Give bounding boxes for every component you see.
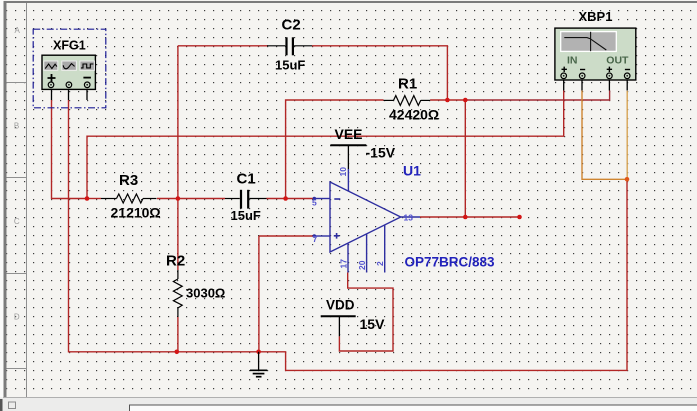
op-amp U1 symbol	[313, 169, 421, 273]
resistor R2	[173, 270, 182, 317]
junction node D on R1 row	[463, 98, 468, 103]
junction ground symbol tap	[256, 350, 261, 355]
svg-text:VEE: VEE	[335, 126, 363, 142]
svg-text:XBP1: XBP1	[579, 9, 613, 24]
wire Bode plotter IN- to ground riser (orange)	[582, 91, 627, 180]
wire C1 right lead to op-amp inverting input	[267, 198, 315, 200]
svg-text:XFG1: XFG1	[53, 39, 86, 53]
function generator XFG1	[42, 55, 95, 100]
svg-text:20: 20	[357, 260, 367, 270]
junction C2 right riser on R1 row	[445, 98, 450, 103]
svg-text:15uF: 15uF	[275, 58, 305, 73]
svg-text:U1: U1	[403, 163, 421, 179]
svg-text:3030Ω: 3030Ω	[186, 286, 225, 301]
svg-text:OP77BRC/883: OP77BRC/883	[405, 255, 496, 270]
svg-text:VDD: VDD	[326, 298, 355, 313]
svg-text:21210Ω: 21210Ω	[111, 205, 161, 221]
svg-text:C2: C2	[282, 17, 301, 34]
wire node C riser up to R1 left lead	[286, 100, 384, 199]
wire XFG1 plus terminal down to R3 row	[52, 100, 88, 199]
resistor R3	[101, 194, 157, 203]
svg-text:2: 2	[375, 261, 385, 266]
selection box around XFG1	[33, 29, 106, 108]
svg-text:OUT: OUT	[606, 54, 629, 66]
wire node A to R3 left lead	[87, 198, 101, 200]
wire ground bus from XFG1 common terminal along bottom to right riser	[69, 100, 628, 370]
svg-text:D: D	[14, 313, 20, 322]
junction R2 bottom on ground bus	[175, 350, 180, 355]
wire node D riser down to output row	[464, 100, 466, 217]
capacitor C2	[267, 37, 312, 55]
svg-text:5: 5	[312, 198, 317, 208]
ground	[250, 352, 267, 377]
svg-text:R2: R2	[166, 253, 185, 270]
junction orange ground node	[625, 177, 630, 182]
wire VDD supply to op-amp pin 17	[339, 273, 393, 352]
svg-text:42420Ω: 42420Ω	[389, 107, 439, 123]
wire R2 bottom lead to ground bus	[177, 317, 179, 352]
wire node A up-leg and long run to Bode plotter IN+	[87, 91, 564, 199]
svg-text:R3: R3	[119, 172, 138, 189]
wire node B to C1 left lead	[178, 198, 225, 200]
svg-text:13: 13	[404, 213, 414, 223]
svg-text:17: 17	[339, 259, 349, 269]
junction node A (XFG output / R3 / IN+)	[85, 196, 90, 201]
wire Bode plotter OUT+ to node D (dark red)	[465, 91, 609, 101]
wire op-amp plus input stub	[259, 235, 314, 237]
svg-text:A: A	[15, 26, 21, 35]
svg-text:15uF: 15uF	[231, 208, 261, 223]
svg-text:IN: IN	[567, 54, 578, 66]
resistor R1	[384, 96, 431, 106]
svg-text:10: 10	[338, 167, 348, 177]
power VDD symbol	[321, 316, 356, 336]
junction node B (R3 / C1 / C2 / R2)	[176, 196, 181, 201]
junction node D on output row	[463, 215, 468, 220]
svg-text:7: 7	[313, 234, 318, 244]
capacitor C1	[225, 190, 267, 209]
junction output row end	[517, 215, 522, 220]
svg-text:-15V: -15V	[366, 145, 396, 161]
wire node B riser up to C2 row and down to R2	[177, 46, 179, 270]
wire top run node B to C2 left lead	[178, 45, 268, 47]
wire plus-input riser down to ground bus	[258, 236, 260, 352]
svg-text:15V: 15V	[360, 316, 386, 332]
wire Bode plotter OUT- drop (tan)	[626, 91, 628, 180]
wire C2 right lead to R1 right node riser	[312, 46, 447, 100]
svg-text:R1: R1	[398, 76, 417, 93]
wire R3 right lead to node B	[157, 198, 178, 200]
svg-text:C1: C1	[237, 171, 256, 188]
wire R1 right lead to node D	[430, 99, 465, 101]
svg-text:C: C	[14, 217, 20, 226]
bode plotter XBP1	[555, 28, 636, 90]
svg-text:B: B	[14, 122, 19, 131]
wire op-amp output row	[420, 216, 520, 218]
junction node C (C1 / R1 / inverting input)	[283, 196, 288, 201]
power VEE symbol	[330, 145, 366, 169]
